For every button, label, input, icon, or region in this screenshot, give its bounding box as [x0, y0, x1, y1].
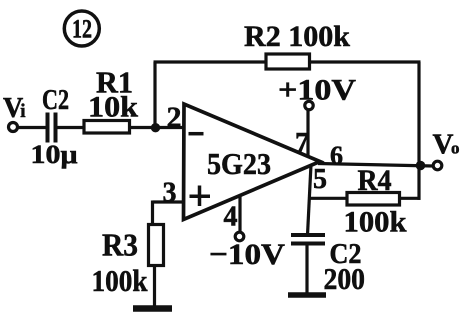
- svg-text:3: 3: [163, 178, 177, 209]
- svg-text:5G23: 5G23: [207, 146, 271, 181]
- svg-text:4: 4: [224, 202, 238, 233]
- svg-text:10μ: 10μ: [31, 140, 78, 169]
- svg-text:R4: R4: [358, 164, 392, 197]
- svg-text:100k: 100k: [92, 263, 149, 298]
- svg-text:−10V: −10V: [209, 238, 285, 271]
- svg-text:+10V: +10V: [278, 74, 356, 107]
- svg-text:C2: C2: [42, 84, 69, 116]
- svg-text:R3: R3: [102, 227, 138, 263]
- svg-text:Vi: Vi: [3, 93, 26, 124]
- svg-text:100k: 100k: [344, 206, 407, 239]
- svg-text:7: 7: [295, 128, 309, 159]
- svg-text:6: 6: [330, 141, 343, 170]
- svg-text:12: 12: [72, 15, 92, 44]
- svg-text:5: 5: [313, 164, 327, 195]
- svg-text:2: 2: [167, 101, 182, 134]
- svg-text:R2 100k: R2 100k: [244, 20, 350, 53]
- svg-text:200: 200: [324, 261, 366, 296]
- svg-text:10k: 10k: [88, 91, 138, 124]
